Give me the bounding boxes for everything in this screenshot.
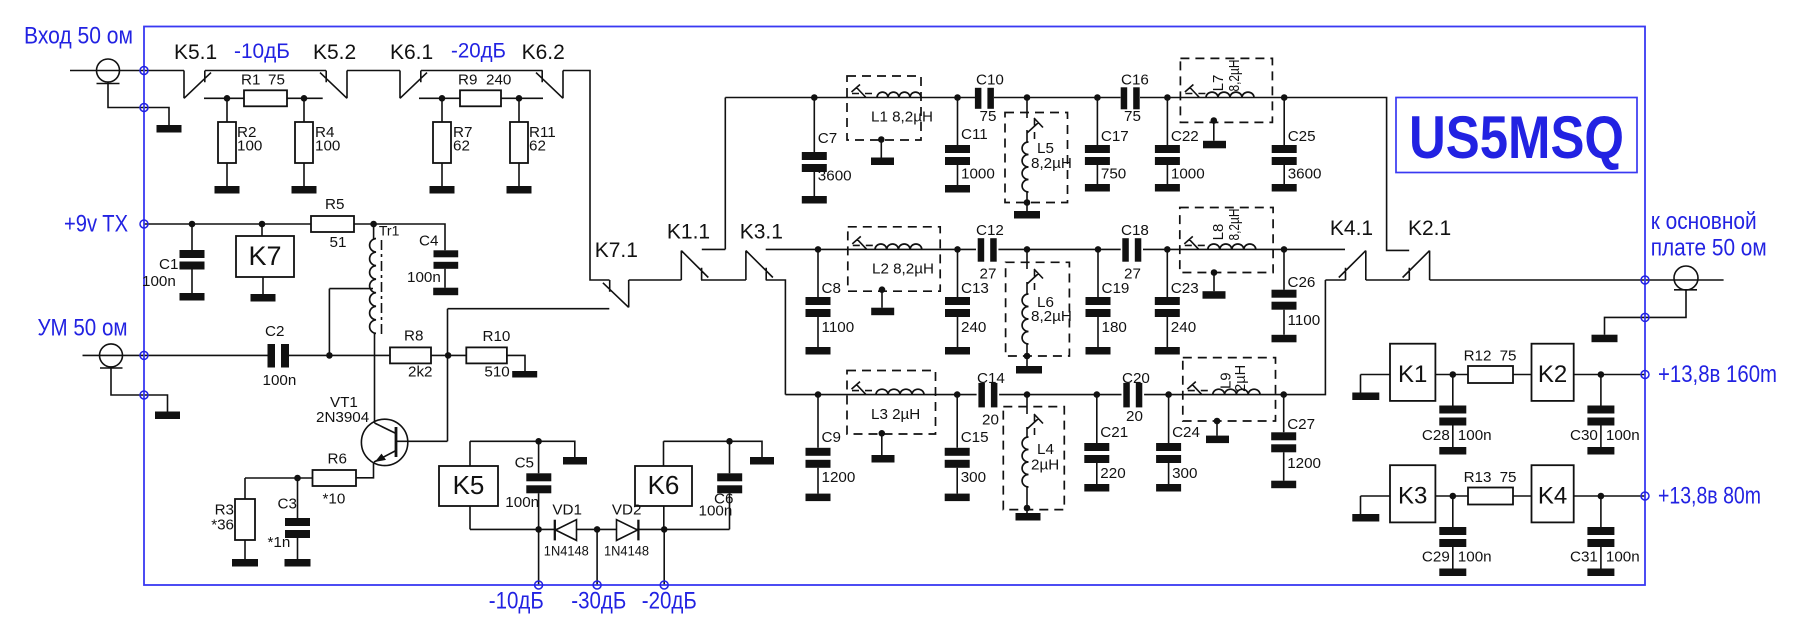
svg-text:K4.1: K4.1 xyxy=(1330,217,1373,240)
svg-text:R10: R10 xyxy=(483,328,511,345)
svg-text:C25: C25 xyxy=(1288,128,1316,145)
svg-text:C15: C15 xyxy=(961,429,989,446)
svg-text:100n: 100n xyxy=(142,273,176,290)
svg-text:K4: K4 xyxy=(1538,483,1567,510)
svg-text:100n: 100n xyxy=(1606,549,1640,566)
svg-text:C8: C8 xyxy=(822,280,841,297)
svg-text:-10дБ: -10дБ xyxy=(489,588,544,615)
svg-text:2µH: 2µH xyxy=(1232,365,1249,392)
svg-text:75: 75 xyxy=(1500,469,1517,486)
svg-text:VD1: VD1 xyxy=(552,502,582,519)
svg-text:75: 75 xyxy=(980,108,997,125)
svg-text:C29: C29 xyxy=(1422,549,1450,566)
svg-text:+13,8в 160m: +13,8в 160m xyxy=(1658,361,1777,388)
svg-text:62: 62 xyxy=(529,138,546,155)
svg-text:K5.1: K5.1 xyxy=(174,41,217,64)
svg-text:K1: K1 xyxy=(1398,361,1427,388)
svg-text:K2.1: K2.1 xyxy=(1408,217,1451,240)
svg-text:C7: C7 xyxy=(818,130,837,147)
svg-text:L2 8,2µH: L2 8,2µH xyxy=(872,261,934,278)
svg-text:L1 8,2µH: L1 8,2µH xyxy=(871,109,933,126)
svg-text:L4: L4 xyxy=(1037,441,1054,458)
svg-text:51: 51 xyxy=(330,234,347,251)
svg-text:-30дБ: -30дБ xyxy=(571,588,626,615)
svg-text:62: 62 xyxy=(453,138,470,155)
svg-text:300: 300 xyxy=(1172,465,1197,482)
svg-text:C19: C19 xyxy=(1102,280,1130,297)
svg-text:R6: R6 xyxy=(328,451,347,468)
svg-text:100n: 100n xyxy=(1606,427,1640,444)
svg-text:1100: 1100 xyxy=(1288,312,1321,329)
svg-text:180: 180 xyxy=(1102,319,1127,336)
svg-text:US5MSQ: US5MSQ xyxy=(1409,104,1624,171)
svg-text:510: 510 xyxy=(484,364,509,381)
svg-text:1200: 1200 xyxy=(1287,455,1321,472)
svg-text:K1.1: K1.1 xyxy=(667,221,710,244)
svg-text:K3.1: K3.1 xyxy=(740,221,783,244)
svg-text:75: 75 xyxy=(1500,348,1517,365)
svg-text:1000: 1000 xyxy=(961,166,995,183)
svg-text:C24: C24 xyxy=(1172,424,1200,441)
svg-text:C5: C5 xyxy=(515,455,534,472)
svg-text:C28: C28 xyxy=(1422,427,1450,444)
svg-text:C11: C11 xyxy=(961,126,988,143)
svg-text:K2: K2 xyxy=(1538,361,1567,388)
svg-text:100n: 100n xyxy=(407,269,441,286)
svg-text:+9v TX: +9v TX xyxy=(64,211,128,238)
svg-text:C21: C21 xyxy=(1100,424,1128,441)
svg-text:УМ 50 ом: УМ 50 ом xyxy=(38,315,128,342)
svg-text:2N3904: 2N3904 xyxy=(316,409,369,426)
svg-text:8,2µH: 8,2µH xyxy=(1226,60,1243,92)
svg-text:-10дБ: -10дБ xyxy=(234,40,290,63)
svg-text:R1: R1 xyxy=(241,72,260,89)
svg-text:L8: L8 xyxy=(1210,224,1227,241)
svg-text:100n: 100n xyxy=(505,494,539,511)
svg-text:20: 20 xyxy=(1126,408,1143,425)
svg-text:3600: 3600 xyxy=(1288,166,1322,183)
svg-text:C12: C12 xyxy=(976,222,1004,239)
svg-text:240: 240 xyxy=(961,319,986,336)
svg-text:100: 100 xyxy=(315,138,340,155)
svg-text:8,2µH: 8,2µH xyxy=(1226,209,1243,241)
svg-text:C30: C30 xyxy=(1570,427,1598,444)
svg-text:1N4148: 1N4148 xyxy=(604,543,649,559)
svg-text:27: 27 xyxy=(1124,266,1141,283)
svg-text:C10: C10 xyxy=(976,72,1004,89)
svg-text:C14: C14 xyxy=(977,370,1005,387)
svg-text:K3: K3 xyxy=(1398,483,1427,510)
svg-text:K6.1: K6.1 xyxy=(390,41,433,64)
svg-text:K6.2: K6.2 xyxy=(522,41,565,64)
svg-text:K6: K6 xyxy=(648,470,680,500)
svg-text:C31: C31 xyxy=(1570,549,1598,566)
svg-text:100n: 100n xyxy=(699,503,733,520)
svg-text:75: 75 xyxy=(268,72,285,89)
svg-text:20: 20 xyxy=(982,412,999,429)
svg-text:8,2µH: 8,2µH xyxy=(1031,308,1072,325)
svg-text:C3: C3 xyxy=(278,496,297,513)
svg-text:100: 100 xyxy=(237,138,262,155)
svg-text:2k2: 2k2 xyxy=(408,364,433,381)
svg-text:2µH: 2µH xyxy=(1031,457,1059,474)
svg-text:220: 220 xyxy=(1100,465,1125,482)
svg-text:1100: 1100 xyxy=(822,319,855,336)
svg-text:75: 75 xyxy=(1124,108,1141,125)
svg-text:-20дБ: -20дБ xyxy=(642,588,697,615)
svg-text:300: 300 xyxy=(961,469,986,486)
svg-text:*1n: *1n xyxy=(268,534,291,551)
svg-text:Вход 50 ом: Вход 50 ом xyxy=(24,23,133,50)
svg-text:C13: C13 xyxy=(961,280,989,297)
svg-text:к основной: к основной xyxy=(1651,208,1757,235)
svg-text:R9: R9 xyxy=(458,72,477,89)
svg-text:K5.2: K5.2 xyxy=(313,41,356,64)
svg-text:*36: *36 xyxy=(211,517,234,534)
svg-text:3600: 3600 xyxy=(818,168,852,185)
svg-text:1N4148: 1N4148 xyxy=(544,543,589,559)
svg-text:R12: R12 xyxy=(1464,348,1492,365)
svg-text:C2: C2 xyxy=(265,323,284,340)
svg-text:плате 50 ом: плате 50 ом xyxy=(1651,235,1767,262)
svg-text:C4: C4 xyxy=(419,233,438,250)
svg-text:100n: 100n xyxy=(1458,427,1492,444)
svg-text:C26: C26 xyxy=(1288,274,1316,291)
svg-text:VD2: VD2 xyxy=(612,502,642,519)
svg-text:-20дБ: -20дБ xyxy=(451,40,506,63)
svg-text:C16: C16 xyxy=(1121,72,1149,89)
svg-text:L7: L7 xyxy=(1210,75,1227,92)
svg-text:K7.1: K7.1 xyxy=(595,239,638,262)
svg-text:C17: C17 xyxy=(1101,128,1129,145)
svg-text:C18: C18 xyxy=(1121,222,1149,239)
svg-text:C23: C23 xyxy=(1171,280,1199,297)
svg-text:100n: 100n xyxy=(263,372,297,389)
svg-text:*10: *10 xyxy=(323,491,346,508)
svg-text:R13: R13 xyxy=(1464,469,1492,486)
svg-text:+13,8в 80m: +13,8в 80m xyxy=(1658,483,1761,510)
svg-text:100n: 100n xyxy=(1458,549,1492,566)
svg-text:K7: K7 xyxy=(248,241,281,271)
svg-text:1200: 1200 xyxy=(822,469,856,486)
svg-text:C9: C9 xyxy=(822,429,841,446)
svg-text:C22: C22 xyxy=(1171,128,1199,145)
svg-text:C27: C27 xyxy=(1287,416,1315,433)
svg-text:8,2µH: 8,2µH xyxy=(1031,155,1072,172)
svg-text:C1: C1 xyxy=(159,256,178,273)
svg-text:240: 240 xyxy=(1171,319,1196,336)
svg-text:C20: C20 xyxy=(1122,370,1150,387)
svg-text:L3 2µH: L3 2µH xyxy=(871,406,920,423)
svg-text:240: 240 xyxy=(486,72,511,89)
svg-text:Tr1: Tr1 xyxy=(379,223,400,239)
svg-text:1000: 1000 xyxy=(1171,166,1205,183)
svg-text:K5: K5 xyxy=(453,470,485,500)
svg-text:R8: R8 xyxy=(404,328,423,345)
svg-text:750: 750 xyxy=(1101,166,1126,183)
svg-text:R5: R5 xyxy=(325,196,344,213)
